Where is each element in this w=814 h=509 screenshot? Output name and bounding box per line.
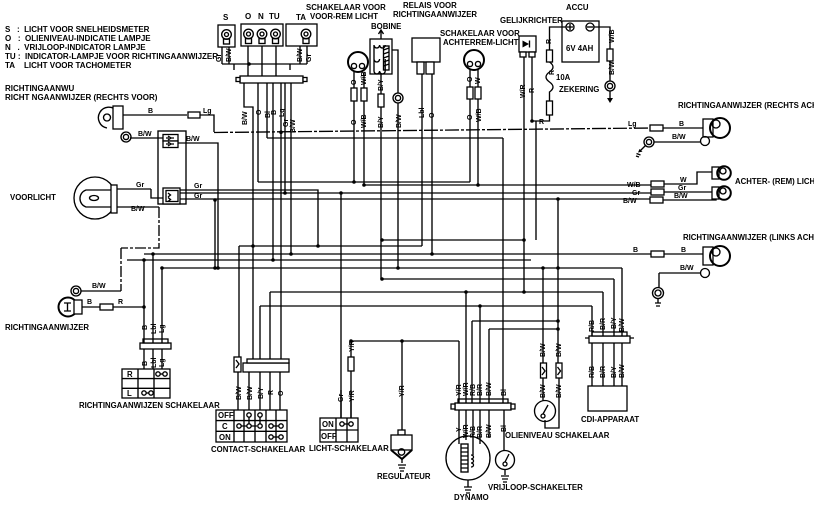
headlight voorlicht — [10, 177, 117, 219]
battery ground connector — [605, 49, 615, 103]
svg-text:S: S — [223, 13, 229, 22]
rear left ground — [653, 269, 710, 307]
wire Bl down to dynamo bar — [502, 138, 504, 403]
svg-text:B: B — [87, 299, 92, 306]
wire side connector feed — [238, 246, 240, 357]
svg-text:B/W: B/W — [556, 343, 563, 357]
LEGEND — [5, 25, 218, 102]
light switch table — [309, 418, 389, 453]
svg-text:RICHTINGAANWIJZER: RICHTINGAANWIJZER — [5, 323, 89, 332]
svg-text:TU : INDICATOR-LAMPJE VOOR RI: TU : INDICATOR-LAMPJE VOOR RICHTINGAANWI… — [5, 52, 218, 61]
svg-text:SCHAKELAAR VOOR: SCHAKELAAR VOOR — [440, 29, 520, 38]
wire rear brake W — [664, 172, 712, 184]
wire B mid bus — [127, 259, 531, 261]
svg-text:B/W: B/W — [92, 283, 106, 290]
svg-text:B/W: B/W — [680, 265, 694, 272]
dynamo — [446, 436, 490, 502]
svg-text:B/W: B/W — [623, 198, 637, 205]
wire cluster B/W right down — [290, 83, 292, 254]
svg-text:S : LICHT VOOR SNELHEIDSMET: S : LICHT VOOR SNELHEIDSMETER — [5, 25, 150, 34]
svg-text:RICHTINGAANWIJZER (RECHTS ACHT: RICHTINGAANWIJZER (RECHTS ACHT — [678, 101, 814, 110]
wire front right signal to connector — [123, 115, 214, 132]
rear brake light (achter rem licht) — [712, 166, 814, 200]
gelijkrichter (rectifier) — [500, 16, 563, 57]
svg-text:B: B — [271, 110, 278, 115]
svg-text:VOORLICHT: VOORLICHT — [10, 193, 56, 202]
svg-text:R/B: R/B — [589, 320, 596, 332]
rear left turn signal — [683, 233, 814, 266]
svg-text:N . VRIJLOOP-INDICATOR LAMP: N . VRIJLOOP-INDICATOR LAMPJE — [5, 43, 146, 52]
svg-text:B: B — [142, 361, 149, 366]
svg-text:B/Y: B/Y — [258, 387, 265, 399]
svg-text:B/W: B/W — [290, 119, 297, 133]
dynamo connector bar — [451, 399, 515, 410]
svg-text:O: O — [351, 119, 358, 125]
svg-text:RICHTINGAANWIJZEN SCHAKELAAR: RICHTINGAANWIJZEN SCHAKELAAR — [79, 401, 220, 410]
svg-text:W/R: W/R — [520, 84, 527, 98]
svg-text:Lg: Lg — [628, 121, 637, 128]
svg-text:Lg: Lg — [279, 108, 286, 117]
wire battery plus to fuse — [550, 27, 567, 50]
wire headlight BW stub — [117, 206, 159, 208]
wire W/B main line — [364, 184, 651, 186]
wire ONTU lamp leads to bar — [248, 46, 276, 76]
wire achterrem O down — [469, 70, 471, 182]
connector front right signal — [188, 112, 200, 118]
svg-text:VRIJLOOP-SCHAKELTER: VRIJLOOP-SCHAKELTER — [488, 483, 583, 492]
svg-text:B: B — [148, 108, 153, 115]
wire CDI BW — [621, 268, 623, 386]
turn signal switch connector bar — [140, 339, 171, 349]
wire BW dynamo link — [489, 328, 558, 330]
svg-text:R/B: R/B — [470, 426, 477, 438]
svg-text:Lbl: Lbl — [151, 323, 158, 334]
svg-text:O : OLIENIVEAU-INDICATIE LA: O : OLIENIVEAU-INDICATIE LAMPJE — [5, 34, 151, 43]
wire TA lamp leads — [300, 46, 307, 64]
svg-text:Y/R: Y/R — [349, 390, 356, 402]
wire regulateur YR — [401, 341, 403, 430]
svg-text:O: O — [467, 114, 474, 120]
svg-text:B/W: B/W — [609, 61, 616, 75]
svg-text:Y/R: Y/R — [399, 385, 406, 397]
svg-text:W/B: W/B — [476, 108, 483, 122]
wire dynamo BW — [488, 329, 490, 403]
front left turn signal — [5, 286, 113, 332]
svg-text:B/W: B/W — [619, 364, 626, 378]
connectors under front brake switch — [351, 88, 357, 101]
svg-text:B: B — [681, 247, 686, 254]
wire CDI BY — [613, 279, 615, 386]
wire Bl line — [267, 137, 503, 139]
connector pair mid-left — [158, 131, 186, 204]
rear left signal connector — [651, 251, 664, 257]
svg-text:Gr: Gr — [136, 182, 144, 189]
wire relay legs down — [422, 74, 432, 254]
rear right connector — [650, 125, 663, 131]
wire dynamo RB — [471, 321, 473, 403]
svg-text:B: B — [633, 247, 638, 254]
svg-text:Gr: Gr — [632, 190, 640, 197]
wire rear right Lg to bulb — [663, 127, 703, 129]
wire Gr drop to bus — [214, 200, 216, 268]
wire oil BW left — [542, 268, 544, 401]
wire rectifier W/R down — [523, 57, 525, 292]
wire front-left ground lead — [81, 290, 121, 292]
oil switch fuses — [541, 363, 547, 378]
rear light connectors — [651, 181, 664, 187]
rear right ground — [636, 137, 710, 158]
svg-text:RICHTINGAANWU: RICHTINGAANWU — [5, 84, 75, 93]
wire cluster Gr down — [284, 83, 286, 193]
rear right turn signal — [678, 101, 814, 138]
wire headlight Gr stub — [117, 189, 163, 198]
svg-text:LICHT-SCHAKELAAR: LICHT-SCHAKELAAR — [309, 444, 389, 453]
svg-text:B/W: B/W — [226, 48, 233, 62]
wire Lg main line — [214, 128, 650, 133]
wire light switch pins to table — [341, 390, 351, 418]
wire O link brakes — [258, 181, 470, 183]
svg-text:Gr: Gr — [678, 185, 686, 192]
wire BY-WR link — [382, 239, 524, 241]
wire lightswitch Gr — [340, 193, 342, 418]
svg-text:B/W: B/W — [396, 114, 403, 128]
svg-text:O: O — [429, 112, 436, 118]
svg-text:O: O — [351, 79, 358, 85]
svg-text:B/Y: B/Y — [611, 317, 618, 329]
svg-text:R: R — [549, 70, 556, 75]
svg-text:OFF: OFF — [321, 432, 337, 441]
svg-text:W/R: W/R — [463, 424, 470, 438]
svg-text:B/W: B/W — [540, 343, 547, 357]
svg-text:B/W: B/W — [486, 424, 493, 438]
contact switch connector bar — [234, 357, 289, 372]
fuse 10A zekering — [546, 50, 599, 115]
svg-text:Gr: Gr — [283, 119, 290, 127]
svg-text:B/W: B/W — [486, 382, 493, 396]
wire contact pins above — [260, 292, 270, 359]
svg-text:TA: TA — [296, 13, 306, 22]
wire rear left B to bulb — [664, 253, 703, 255]
cdi apparaat box — [581, 386, 639, 424]
svg-text:Y: Y — [456, 427, 463, 432]
wire dynamo YR — [458, 341, 460, 403]
svg-text:L: L — [127, 389, 132, 398]
svg-text:OLIENIVEAU SCHAKELAAR: OLIENIVEAU SCHAKELAAR — [505, 431, 610, 440]
wire bobine BW down — [392, 50, 398, 268]
svg-text:GELIJKRICHTER: GELIJKRICHTER — [500, 16, 563, 25]
wire cluster B/W jog to contact switch — [244, 83, 253, 359]
cdi connector bar — [585, 332, 634, 343]
svg-text:W/B: W/B — [361, 114, 368, 128]
wire B/W main line — [180, 198, 650, 200]
wire Lbl bus — [239, 245, 422, 247]
wire rear brake BW — [663, 199, 716, 200]
wire O brake front down — [353, 72, 355, 182]
svg-text:RICHTINGAANWIJZER: RICHTINGAANWIJZER — [393, 10, 477, 19]
wire lightswitch YR — [350, 341, 352, 418]
svg-text:ON: ON — [322, 420, 334, 429]
connectors under rear brake switch — [467, 87, 473, 99]
wire BR link — [472, 320, 558, 322]
svg-text:ACCU: ACCU — [566, 3, 589, 12]
svg-text:B: B — [679, 121, 684, 128]
svg-text:OFF: OFF — [218, 411, 234, 420]
wire contact pins below — [238, 372, 280, 410]
accu battery — [562, 3, 599, 62]
svg-text:B/W: B/W — [556, 384, 563, 398]
svg-text:B/Y: B/Y — [611, 366, 618, 378]
svg-text:RICHTINGAANWIJZER (LINKS ACHT: RICHTINGAANWIJZER (LINKS ACHT — [683, 233, 814, 242]
front brake light switch (schakelaar voor voor-rem licht) — [306, 3, 386, 72]
turn signal switch table — [79, 369, 220, 410]
svg-text:W: W — [475, 77, 482, 84]
svg-text:B/R: B/R — [477, 384, 484, 396]
svg-text:R: R — [268, 390, 275, 395]
wire R/B bus to CDI — [260, 305, 592, 307]
wire achterrem WB down — [477, 70, 479, 185]
svg-text:Bl: Bl — [501, 389, 508, 396]
svg-text:B/W: B/W — [247, 386, 254, 400]
svg-text:RICHT NGAANWIJZER (RECHTS VOOR: RICHT NGAANWIJZER (RECHTS VOOR) — [5, 93, 158, 102]
svg-text:ACHTER- (REM) LICHT: ACHTER- (REM) LICHT — [735, 177, 814, 186]
svg-text:R: R — [546, 39, 553, 44]
svg-text:SCHAKELAAR VOOR: SCHAKELAAR VOOR — [306, 3, 386, 12]
wire Y/R bus — [351, 340, 459, 342]
svg-text:10A: 10A — [556, 73, 571, 82]
ground connector front — [121, 132, 131, 142]
svg-text:W/B: W/B — [361, 71, 368, 85]
svg-text:N: N — [258, 12, 264, 21]
wire S lamp leads — [222, 47, 229, 64]
svg-text:R: R — [127, 370, 133, 379]
svg-text:Gr: Gr — [194, 183, 202, 190]
wire dynamo BR — [479, 306, 481, 403]
wire riser bar taps — [234, 64, 290, 70]
svg-text:C: C — [222, 422, 228, 431]
svg-text:Gr: Gr — [194, 193, 202, 200]
svg-text:O: O — [256, 109, 263, 115]
bobine (ignition coil) — [370, 22, 401, 74]
svg-text:O: O — [467, 76, 474, 82]
svg-text:R/B: R/B — [470, 384, 477, 396]
wire cluster Lg down — [280, 83, 282, 359]
svg-text:ON: ON — [219, 433, 231, 442]
wire cluster O down — [257, 83, 259, 182]
wire B/Y bus to CDI — [382, 278, 614, 280]
wire B/R bus to CDI — [270, 291, 603, 293]
light switch inline connector — [348, 357, 354, 371]
svg-text:CDI-APPARAAT: CDI-APPARAAT — [581, 415, 639, 424]
wire TS switch pins to table — [144, 349, 162, 369]
wire rear right ground row — [654, 141, 700, 143]
wire rear left BW ground — [659, 273, 700, 287]
svg-text:6V 4AH: 6V 4AH — [566, 44, 594, 53]
cluster connector bar — [236, 76, 307, 83]
bobine pin connector — [378, 94, 384, 107]
indicator lamp cluster box O N TU — [241, 12, 283, 46]
svg-text:B/W: B/W — [297, 48, 304, 62]
indicator lamp cluster box S — [218, 13, 235, 47]
headlight connector pair — [163, 188, 180, 204]
svg-text:Gr: Gr — [216, 54, 223, 62]
olieniveau schakelaar (oil level switch) — [505, 401, 610, 441]
svg-text:R: R — [539, 119, 544, 126]
svg-text:B/R: B/R — [600, 366, 607, 378]
svg-text:B/W: B/W — [672, 134, 686, 141]
wire Bl to neutral switch — [503, 410, 505, 450]
svg-text:CONTACT-SCHAKELAAR: CONTACT-SCHAKELAAR — [211, 445, 306, 454]
svg-text:VOOR-REM LICHT: VOOR-REM LICHT — [310, 12, 378, 21]
wire bobine BY down — [380, 74, 382, 279]
wire dynamo pins into body — [459, 410, 489, 455]
svg-text:REGULATEUR: REGULATEUR — [377, 472, 431, 481]
svg-text:DYNAMO: DYNAMO — [454, 493, 489, 502]
svg-text:ZEKERING: ZEKERING — [559, 85, 599, 94]
svg-text:W/B: W/B — [609, 29, 616, 43]
wire dynamo WR — [465, 292, 467, 403]
wire B/W from connector down — [178, 143, 218, 268]
svg-text:BOBINE: BOBINE — [371, 22, 401, 31]
svg-text:B/W: B/W — [131, 206, 145, 213]
svg-text:Lg: Lg — [159, 358, 166, 367]
wire WB brake front down — [363, 72, 365, 185]
svg-text:Lg: Lg — [203, 108, 212, 115]
svg-text:Gr: Gr — [338, 394, 345, 402]
contact switch table — [211, 410, 306, 454]
svg-text:Bl: Bl — [501, 425, 508, 432]
wire cluster Bl down — [266, 83, 268, 138]
svg-text:RELAIS VOOR: RELAIS VOOR — [403, 1, 457, 10]
wire Gr main line — [180, 190, 318, 246]
svg-text:Lbl: Lbl — [151, 357, 158, 368]
wire Gr line to rear — [180, 192, 651, 194]
svg-text:B/R: B/R — [600, 318, 607, 330]
wire rear brake Gr — [664, 191, 712, 193]
svg-text:W: W — [680, 177, 687, 184]
svg-text:B/Y: B/Y — [378, 79, 385, 91]
wire bus under cluster — [222, 63, 307, 65]
wire O bus — [162, 267, 622, 269]
svg-text:R: R — [529, 88, 536, 93]
wire front left B — [82, 306, 144, 308]
svg-text:B/W: B/W — [619, 318, 626, 332]
svg-text:Y/R: Y/R — [349, 340, 356, 352]
wire CDI RB — [591, 306, 593, 386]
svg-text:B/W: B/W — [242, 111, 249, 125]
svg-text:O: O — [278, 390, 285, 396]
svg-text:ACHTERREM-LICHT: ACHTERREM-LICHT — [443, 38, 519, 47]
wire rectifier R down — [531, 57, 533, 121]
svg-text:B/Y: B/Y — [378, 116, 385, 128]
svg-text:TU: TU — [269, 12, 280, 21]
svg-text:Y/R: Y/R — [456, 384, 463, 396]
rear brake light switch (schakelaar voor achterrem-licht) — [440, 29, 520, 70]
svg-text:B/W: B/W — [138, 131, 152, 138]
wire R fuse to bus — [532, 115, 550, 240]
svg-text:W/R: W/R — [463, 382, 470, 396]
wire front ground to connector — [130, 137, 163, 139]
svg-text:R/B: R/B — [589, 366, 596, 378]
wire BW headlight to front-left ground — [121, 207, 159, 291]
front right turn signal bulb — [98, 106, 123, 129]
wire cluster B down — [272, 83, 274, 260]
svg-text:B: B — [142, 325, 149, 330]
svg-text:B/W: B/W — [674, 193, 688, 200]
regulateur — [377, 430, 431, 481]
wire battery minus to ground — [594, 27, 610, 81]
svg-text:B/R: B/R — [477, 426, 484, 438]
wire TS switch risers — [144, 254, 162, 343]
svg-text:R: R — [118, 299, 123, 306]
vrijloop schakelaar (neutral switch) — [488, 451, 583, 493]
svg-text:Lbl: Lbl — [419, 107, 426, 118]
svg-text:B/W: B/W — [540, 384, 547, 398]
bobine right connector circle — [393, 93, 403, 103]
wire B rear-left line — [144, 253, 651, 255]
svg-text:W/B: W/B — [627, 182, 641, 189]
svg-text:Gr: Gr — [306, 54, 313, 62]
svg-text:O: O — [245, 12, 251, 21]
indicator lamp cluster box TA — [286, 13, 317, 46]
svg-text:Lg: Lg — [159, 324, 166, 333]
svg-text:TA LICHT VOOR TACHOMETER: TA LICHT VOOR TACHOMETER — [5, 61, 132, 70]
svg-text:B/W: B/W — [186, 136, 200, 143]
relay (relais voor richtingaanwijzer) — [393, 1, 477, 74]
wire oil BW right — [545, 199, 559, 428]
wire CDI BR — [602, 292, 604, 386]
svg-text:B/W: B/W — [236, 386, 243, 400]
